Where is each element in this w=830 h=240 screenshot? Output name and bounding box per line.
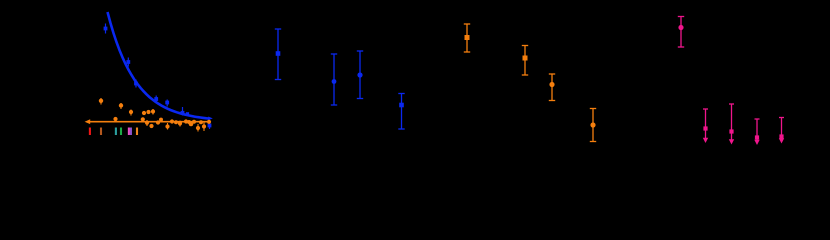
orange point o6 (151, 109, 155, 115)
panel 1: orange baseline arrow (85, 119, 210, 124)
blue point b2 (126, 58, 130, 67)
blue curve arrowhead (208, 117, 213, 121)
panel 2: blue errorbar p3 (357, 51, 363, 99)
orange point o18 (207, 120, 211, 124)
orange point o10 (156, 120, 160, 124)
blue point b6b (186, 112, 189, 115)
blue point b1 (104, 24, 108, 34)
orange point o2 (113, 117, 117, 121)
panel 3: magenta upper limit m4 (754, 119, 759, 145)
orange point o14 (184, 119, 188, 123)
panel 1: blue data points with error bars (104, 24, 212, 130)
panel 3: magenta errorbar m1 (678, 17, 784, 146)
panel 2: orange errorbar d (590, 109, 596, 142)
panel 3: magenta upper limit m3 (729, 104, 734, 145)
orange point o15 (189, 122, 194, 127)
blue point b4 (154, 96, 158, 103)
orange point o21 (192, 120, 196, 124)
orange point o9 (149, 124, 153, 128)
rug tick green (120, 128, 122, 136)
blue point b7 (208, 122, 212, 129)
orange point o13 (178, 121, 182, 127)
orange point o16 (196, 124, 200, 132)
panel 2: blue errorbar p2 (331, 54, 337, 105)
panel 2: orange errorbar c (549, 74, 555, 101)
rug tick purple (130, 128, 132, 136)
panel 2: blue errorbar p1 (275, 29, 405, 129)
panel 3: magenta upper limit m2 (703, 109, 708, 143)
orange point o1 (99, 98, 103, 105)
orange point o17 (202, 123, 206, 132)
orange point o4 (129, 110, 133, 116)
orange point o5 (142, 111, 146, 115)
orange point o19 (159, 118, 163, 122)
panel 1: rug ticks (90, 128, 137, 136)
orange point o5b (146, 110, 150, 114)
rug tick teal (115, 128, 117, 136)
blue point b3 (134, 80, 138, 88)
panel 2: blue errorbar p4 (398, 94, 404, 130)
panel 2: orange errorbar a (464, 24, 596, 142)
blue point b6 (181, 107, 185, 116)
rug tick orange (136, 128, 138, 136)
blue point b5 (165, 100, 169, 107)
rug tick orchid (128, 128, 130, 136)
orange point o12 (170, 119, 174, 123)
rug tick red (89, 128, 91, 136)
orange point o8 (145, 120, 149, 126)
orange point o7 (141, 117, 145, 121)
orange point o3 (119, 103, 123, 109)
orange point o22 (199, 120, 203, 124)
panel 3: magenta upper limit m5 (779, 118, 784, 144)
orange point o15b (187, 120, 191, 124)
panel 2: orange errorbar b (522, 46, 528, 76)
rug tick chocolate (100, 128, 102, 136)
orange point o20 (174, 120, 178, 124)
panel 1: orange scatter points (99, 98, 211, 132)
panel 1: blue decay curve (108, 12, 210, 119)
orange point o11 (165, 123, 169, 130)
